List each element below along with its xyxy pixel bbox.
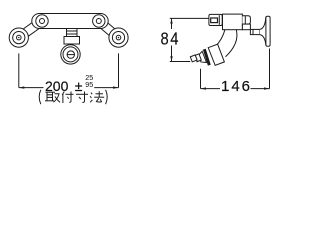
extension line right (mount pitch) [118,53,120,87]
handle knob [209,14,222,25]
arrow left of 146 [201,87,207,89]
extension line bottom (spout outlet) [170,61,190,63]
elbow [215,30,237,57]
kanji 寸 [76,92,88,103]
extension line 146 left (spout tip) [200,69,202,89]
wall flange bell [260,16,270,46]
extension line 146 right (wall face) [269,49,271,89]
shoulder block [242,24,250,30]
svg-text:84: 84 [160,29,180,49]
dimension line 84 lower segment [171,46,173,62]
outlet collar nut [64,37,80,45]
dimension line 146 left segment [201,88,221,90]
dimension line 84 upper segment [171,18,173,29]
kanji 付 [62,92,73,104]
arrow left of 200 [19,86,25,88]
kanji 法 [90,91,104,102]
arrow right of 200 [113,86,119,88]
right eccentric link [94,16,122,41]
left bar-end cap [36,15,48,27]
top side stub cap [242,16,250,24]
dimension line 146 right segment [251,88,270,90]
extension line top (handle) [170,17,209,19]
pipe with union [250,29,259,34]
right bar-end cap [93,15,105,27]
left eccentric link [16,16,47,42]
dimension line 200 left segment [19,87,44,89]
paren close [106,90,108,104]
outlet aerator (front) [61,45,80,64]
label 84 [160,29,180,49]
svg-text:146: 146 [221,78,252,95]
svg-text:200: 200 [45,78,69,94]
svg-text:95: 95 [85,80,93,89]
center outlet stem [67,29,78,37]
valve body block [223,14,243,30]
spout ring [195,54,202,62]
arrow top of 84 [170,18,172,23]
kanji 取 [45,92,60,102]
svg-text:±: ± [75,78,83,94]
spout mouth [190,55,197,62]
left wall flange [9,28,28,47]
dimension line 200 right segment [94,87,118,89]
crossbar body [32,14,108,29]
paren open [39,90,41,104]
arrow bottom of 84 [170,56,172,61]
right wall flange [109,28,128,47]
extension line left (mount pitch) [18,53,20,87]
arrow right of 146 [264,87,270,89]
spout aerator bold band [204,49,209,65]
spout taper [198,51,207,64]
spout union nut [208,44,224,65]
caption (取付寸法) drawn strokes [39,90,107,104]
tolerance 25 over 95 [85,73,93,89]
